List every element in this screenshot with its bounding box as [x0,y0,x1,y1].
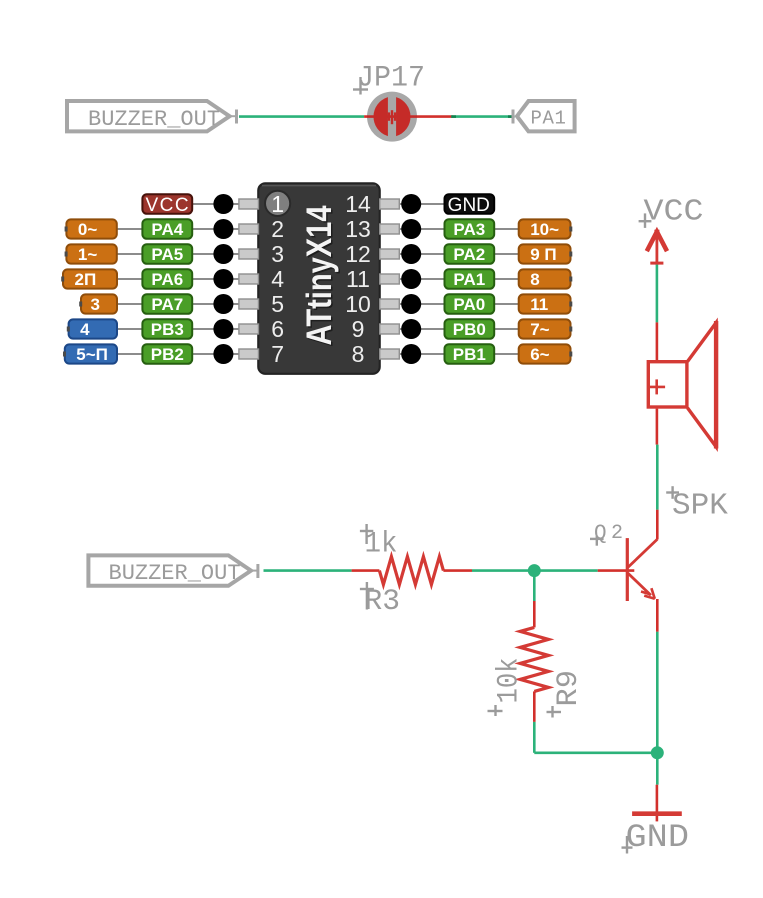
svg-text:9: 9 [352,316,365,342]
transistor Q2 [627,538,657,601]
net label BUZZER_OUT (top) [67,101,237,132]
pin 2 (left, PA4) [65,216,284,242]
svg-text:6~: 6~ [530,345,549,364]
wire [533,722,536,753]
pin 13 (right, PA3) [345,216,572,242]
pin 5 (left, PA7) [79,291,284,317]
pin 10 (right, PA0) [345,291,572,317]
pin 1 marker circle [265,191,290,216]
svg-text:VCC: VCC [145,195,190,216]
svg-text:Q: Q [594,523,607,546]
label R9 [547,706,562,718]
svg-text:BUZZER_OUT: BUZZER_OUT [109,561,241,586]
svg-text:3: 3 [271,241,284,267]
jumper JP17 [367,92,417,142]
wire [533,691,536,722]
wire [534,751,657,754]
wire [533,601,536,627]
resistor R9 (10k) [520,627,548,691]
svg-text:11: 11 [346,266,370,292]
power symbol VCC [647,230,667,265]
svg-text:PB3: PB3 [151,320,184,339]
svg-text:PA1: PA1 [453,270,485,289]
wire junction overlap [508,115,515,118]
svg-text:8: 8 [352,341,365,367]
wire [364,115,452,118]
svg-text:10k: 10k [493,658,527,704]
svg-text:0~: 0~ [78,220,97,239]
wire [472,569,598,572]
svg-text:VCC: VCC [644,195,704,230]
ground symbol [632,811,682,816]
wire [656,409,659,445]
wire [598,569,635,572]
svg-text:10: 10 [345,291,371,317]
svg-text:9 Π: 9 Π [530,245,556,264]
svg-text:R3: R3 [365,585,401,619]
svg-text:R9: R9 [552,670,586,707]
svg-text:11: 11 [530,295,548,314]
svg-text:5~Π: 5~Π [76,345,108,364]
pin 8 (right, PB1) [352,341,573,367]
svg-text:2: 2 [611,522,623,545]
label GND [622,836,633,854]
svg-text:6: 6 [271,316,284,342]
svg-text:SPK: SPK [672,488,728,523]
svg-text:PB0: PB0 [453,320,486,339]
svg-text:PB2: PB2 [151,345,184,364]
wire [533,571,536,601]
wire [656,753,659,785]
svg-text:PA0: PA0 [453,295,485,314]
svg-text:10~: 10~ [530,220,559,239]
wire [352,569,380,572]
svg-text:4: 4 [271,266,284,292]
svg-text:13: 13 [345,216,371,242]
pin 12 (right, PA2) [345,241,572,267]
svg-text:14: 14 [345,191,371,217]
svg-text:ATtinyX14: ATtinyX14 [300,205,339,345]
svg-text:PA1: PA1 [531,107,567,129]
svg-text:3: 3 [91,295,100,314]
speaker SPK [648,321,716,449]
svg-text:12: 12 [345,241,371,267]
svg-text:2: 2 [271,216,284,242]
wire [656,322,659,360]
wire [656,265,659,323]
pin 9 (right, PB0) [352,316,573,342]
pin 7 (left, PB2) [63,341,284,367]
svg-text:1~: 1~ [78,245,97,264]
svg-text:4: 4 [80,320,90,339]
svg-text:GND: GND [448,195,490,216]
wire [239,115,364,118]
svg-text:PA7: PA7 [151,295,183,314]
svg-text:8: 8 [530,270,539,289]
svg-text:BUZZER_OUT: BUZZER_OUT [88,107,220,132]
svg-text:7: 7 [271,341,284,367]
junction node [528,564,541,577]
net label BUZZER_OUT (lower) [88,555,258,586]
svg-text:PB1: PB1 [453,345,486,364]
svg-text:JP17: JP17 [357,61,425,95]
resistor R3 (1k) [379,557,443,585]
label SPK [666,486,679,499]
wire [656,445,659,510]
wire [451,115,514,118]
pin 14 (right, GND) [345,191,494,217]
svg-text:GND: GND [626,819,690,856]
svg-text:1k: 1k [365,528,398,562]
wire [264,569,352,572]
svg-text:PA2: PA2 [453,245,485,264]
svg-text:1: 1 [271,191,284,217]
pin 3 (left, PA5) [65,241,284,267]
wire [656,510,659,540]
wire [656,785,659,822]
pin 1 (left, VCC) [142,191,284,217]
wire junction overlap [451,115,456,118]
IC U1 ATtinyX14 body [258,183,379,373]
svg-text:5: 5 [271,291,284,317]
svg-text:7~: 7~ [530,320,549,339]
svg-text:PA4: PA4 [151,220,183,239]
svg-text:PA5: PA5 [151,245,183,264]
label 10k [488,705,503,716]
label Q2 [590,536,604,546]
svg-text:2Π: 2Π [75,270,97,289]
wire [656,632,659,753]
wire [656,599,659,632]
pin 6 (left, PB3) [67,316,284,342]
label 1k [360,524,373,544]
pin 11 (right, PA1) [346,266,572,292]
svg-text:PA6: PA6 [151,270,183,289]
label VCC [639,213,652,228]
wire [443,569,472,572]
net label PA1 [513,101,575,131]
label JP17 [353,77,368,95]
label R3 [360,582,374,610]
svg-text:PA3: PA3 [453,220,485,239]
pin 4 (left, PA6) [61,266,284,292]
junction node [651,746,664,759]
